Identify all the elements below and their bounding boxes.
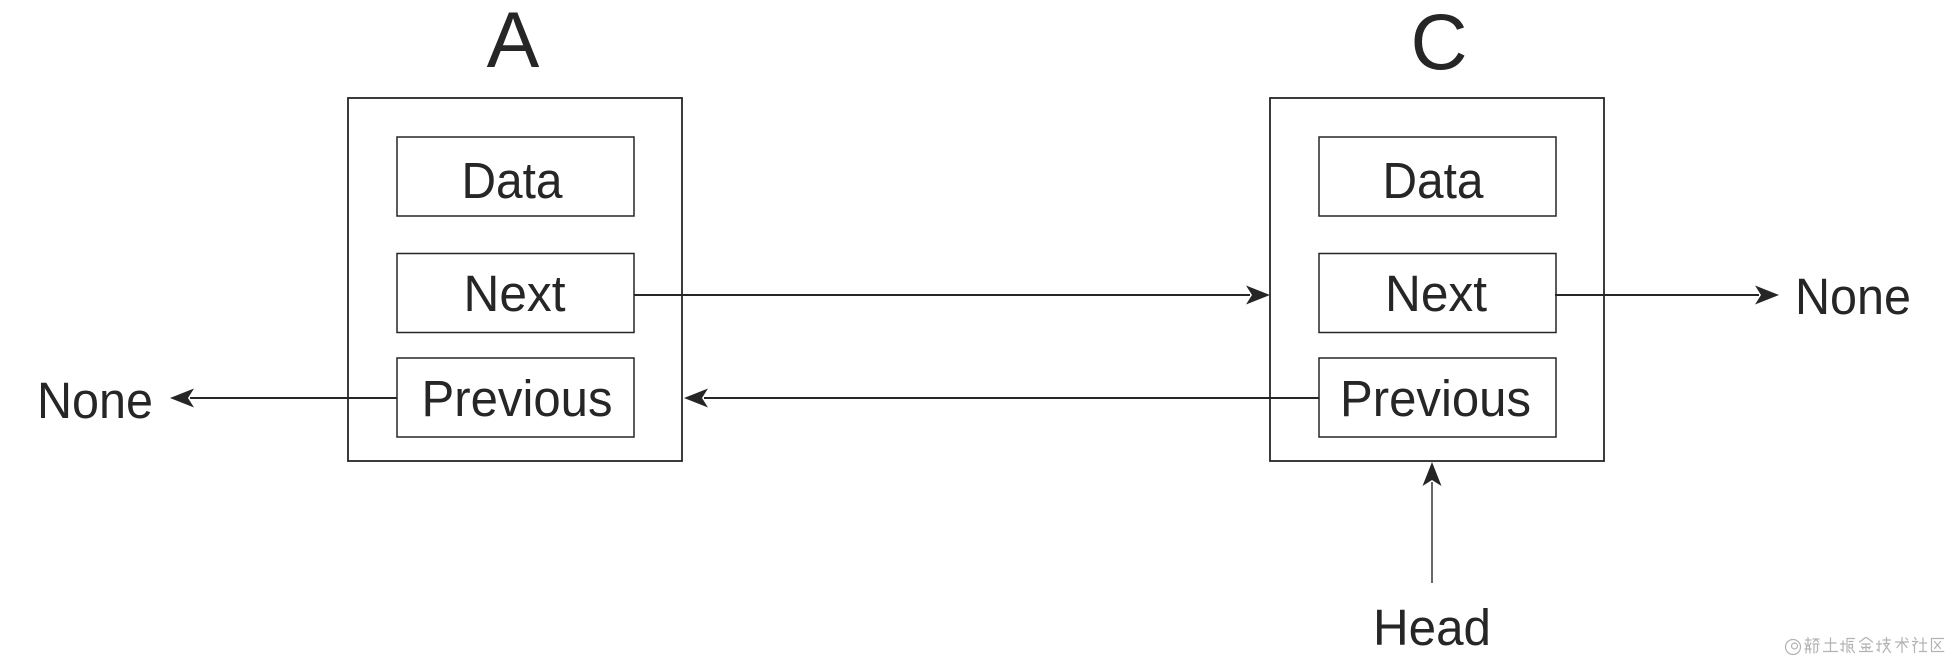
svg-text:Next: Next — [1385, 265, 1487, 322]
svg-text:C: C — [1410, 0, 1467, 86]
svg-text:Head: Head — [1373, 599, 1491, 656]
svg-text:Data: Data — [462, 152, 564, 209]
svg-text:Data: Data — [1383, 152, 1485, 209]
svg-text:A: A — [487, 0, 540, 84]
svg-text:Next: Next — [464, 265, 566, 322]
svg-text:Previous: Previous — [422, 370, 613, 427]
svg-text:Previous: Previous — [1340, 370, 1531, 427]
svg-text:None: None — [1795, 268, 1911, 325]
svg-text:None: None — [37, 372, 153, 429]
